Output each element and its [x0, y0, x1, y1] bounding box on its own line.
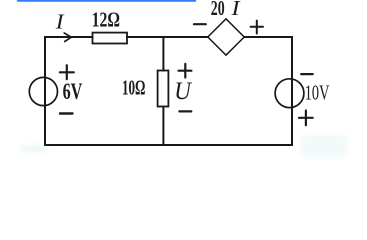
voltage source 10V circle [275, 79, 304, 108]
svg-text:I: I [230, 0, 241, 20]
wire top-right segment [244, 36, 292, 38]
plus sign (U top) [179, 64, 192, 78]
dependent source diamond 20I [208, 19, 244, 55]
resistor R2 10ohm box [158, 71, 169, 107]
faint scan tint bottom-left [19, 145, 49, 153]
minus sign (10V top) [301, 73, 313, 75]
wire right branch [291, 37, 293, 145]
svg-text:10Ω: 10Ω [122, 75, 145, 99]
wire top-middle segment [127, 36, 208, 38]
plus sign (10V bottom) [299, 111, 313, 126]
wire left branch [44, 37, 46, 145]
minus sign (diamond left) [194, 23, 206, 25]
wire middle branch lower [162, 107, 164, 146]
svg-text:U: U [174, 78, 192, 105]
plus sign (diamond right) [251, 21, 263, 34]
faint scan tint bottom-right [300, 134, 348, 158]
minus sign (U bottom) [179, 110, 191, 112]
wire top-left segment [45, 36, 93, 38]
svg-text:12Ω: 12Ω [92, 8, 120, 32]
wire middle branch upper [162, 37, 164, 71]
resistor R1 12ohm box [93, 33, 128, 44]
plus sign (6V top) [60, 65, 74, 79]
svg-text:10V: 10V [305, 81, 330, 104]
blue underline artifact (top) [17, 0, 197, 2]
current arrow I [64, 33, 71, 42]
svg-text:20: 20 [211, 0, 225, 20]
wire bottom [45, 144, 292, 146]
voltage source 6V circle [29, 77, 57, 105]
minus sign (6V bottom) [60, 112, 73, 114]
svg-text:6V: 6V [63, 79, 83, 104]
